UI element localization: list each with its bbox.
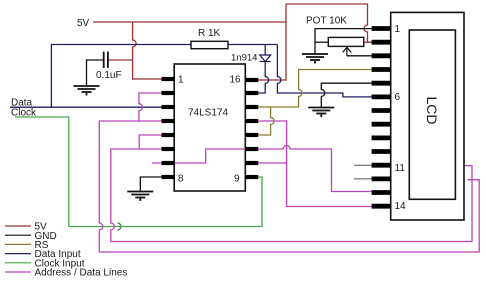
wire IC pin4 row: [99, 121, 479, 252]
IC pin stubs left: [162, 79, 175, 177]
ground under IC pin8: [127, 192, 153, 202]
wire IC pin14 RS row to olive vertical: [258, 106, 298, 108]
svg-text:9: 9: [234, 174, 240, 185]
svg-text:1: 1: [178, 75, 184, 86]
ground near LCD pin5: [308, 108, 334, 118]
ground under C1: [74, 86, 100, 96]
svg-text:R 1K: R 1K: [198, 28, 221, 39]
wire R1 right to junction: [228, 44, 277, 46]
wire RS branch to IC pin12 (hop over pin13 magenta): [258, 107, 274, 135]
wire IC pin8 to ground: [140, 177, 161, 191]
svg-text:74LS174: 74LS174: [188, 108, 228, 119]
legend Address / Data Lines: [5, 271, 31, 273]
diode D1 1n914: [260, 55, 271, 62]
wire IC pin2 to pin4 net (hop over data line): [139, 93, 162, 121]
wire IC pin10 to pin13 vertical: [258, 162, 286, 164]
wire hop artifact on clock rail: [118, 223, 122, 230]
svg-text:1n914: 1n914: [231, 53, 257, 64]
wire C1 right plate to 5V: [108, 59, 132, 61]
wire LCD pin1 to ground rail: [315, 29, 372, 54]
wire 5V rail top: [93, 21, 286, 23]
wire data branch up to R1: [51, 45, 191, 108]
potentiometer POT 10K body: [328, 37, 364, 46]
wire POT wiper to LCD pin3: [347, 55, 372, 57]
svg-text:14: 14: [395, 201, 407, 212]
wire IC pin13 down to LCD pin14: [258, 121, 371, 207]
wire IC pin6 row down around to LCD right side: [111, 149, 472, 242]
wire IC pin11 row to LCD pin13 (hop over pin13 vertical): [258, 146, 371, 192]
wire IC pin5 to pin6 net: [139, 135, 161, 149]
svg-text:POT 10K: POT 10K: [306, 16, 347, 27]
wire 5V branch to C1 and IC pin1 (hop over data branch): [133, 22, 162, 79]
IC U1 74LS174 body: [174, 64, 245, 191]
wire C1 left plate to ground: [87, 60, 104, 86]
wire 5V staple over POT to LCD pin2 (hop over pin1 gnd wire): [286, 4, 372, 42]
IC pin stubs right: [245, 80, 258, 177]
legend GND: [5, 234, 31, 236]
svg-text:LCD: LCD: [424, 96, 440, 124]
legend 5V: [5, 225, 31, 227]
svg-text:1: 1: [395, 24, 401, 35]
legend Data Input: [5, 253, 31, 255]
wire Clock input line: [15, 117, 69, 227]
wire RS vertical to LCD pin4 (hop over blue): [299, 70, 372, 108]
ground under POT: [302, 54, 328, 64]
wire LCD pin11 stub: [354, 164, 372, 166]
LCD pin stubs 1-14: [372, 29, 391, 207]
wire diode branch down to IC pin15 (hop over pin16 red): [264, 45, 266, 56]
wire R1 node down and right to LCD pin6 (hops over pin16 red): [277, 45, 371, 97]
svg-text:6: 6: [395, 92, 401, 103]
legend RS: [5, 243, 31, 245]
svg-text:11: 11: [395, 163, 406, 174]
svg-text:16: 16: [230, 75, 242, 86]
resistor R1 1K body: [191, 41, 228, 48]
wire IC pin7 through body up to pin11 row: [152, 149, 246, 163]
LCD display inner window: [409, 30, 455, 199]
wire POT right terminal to 5V: [364, 41, 372, 43]
wire POT left terminal: [315, 41, 328, 43]
wire Data input line to IC pin3: [10, 106, 162, 108]
wire LCD pin5 to ground (hop over blue): [321, 83, 371, 107]
LCD module outer body: [391, 12, 464, 220]
wire 5V vertical to IC pin16: [258, 4, 286, 80]
wire clock bottom rail to IC pin9: [69, 177, 262, 227]
svg-text:Address / Data Lines: Address / Data Lines: [35, 268, 128, 279]
svg-text:5V: 5V: [77, 18, 90, 29]
svg-text:0.1uF: 0.1uF: [96, 70, 122, 81]
POT wiper arrow: [343, 47, 352, 55]
legend Clock Input: [5, 262, 31, 264]
svg-text:8: 8: [178, 174, 184, 185]
capacitor C1 0.1uF: [104, 52, 108, 68]
wire LCD pin12 stub: [354, 178, 372, 180]
